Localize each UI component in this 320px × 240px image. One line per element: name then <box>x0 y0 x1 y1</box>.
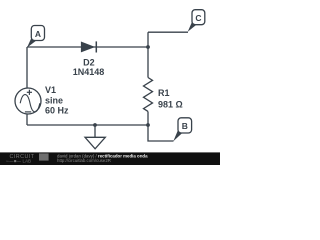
svg-text:A: A <box>35 29 41 39</box>
svg-text:V1: V1 <box>45 85 56 95</box>
svg-text:R1: R1 <box>158 88 170 98</box>
svg-text:B: B <box>182 121 188 131</box>
svg-text:∼—■— LAB: ∼—■— LAB <box>6 158 32 163</box>
svg-text:C: C <box>195 13 201 23</box>
svg-text:sine: sine <box>45 96 63 106</box>
svg-text:1N4148: 1N4148 <box>73 67 105 77</box>
svg-text:60 Hz: 60 Hz <box>45 106 69 116</box>
svg-text:http://circuitlab.com/cuse2R: http://circuitlab.com/cuse2R <box>57 158 111 163</box>
svg-text:981 Ω: 981 Ω <box>158 100 183 110</box>
